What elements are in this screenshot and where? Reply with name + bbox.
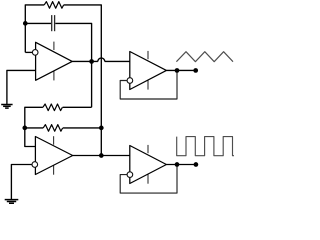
op-amp U4 (buffer) xyxy=(127,145,166,184)
triangle waveform symbol xyxy=(176,52,233,62)
wire capacitor row left xyxy=(25,22,51,24)
node junction dot U4 feedback xyxy=(175,162,180,167)
wire U1 non-inverting input to ground G1 xyxy=(7,70,36,104)
wire U4 feedback loop output to bubble xyxy=(120,165,177,194)
node junction dot U2 output xyxy=(99,153,104,158)
square waveform symbol xyxy=(177,137,234,156)
resistor R2 xyxy=(43,104,62,111)
wire U1 output continuing to U3 input xyxy=(105,60,130,62)
ground G1 xyxy=(1,105,12,109)
resistor R3 xyxy=(43,125,62,132)
wire U3 feedback loop output to bubble xyxy=(120,70,177,99)
wire row A left lead down to node B and U2 upper input xyxy=(25,107,43,146)
wire capacitor right lead down to U1 output node and row A corner xyxy=(55,23,91,107)
node junction dot U3 feedback xyxy=(175,68,180,73)
op-amp U3 (buffer) xyxy=(127,51,166,90)
wire row B right lead xyxy=(63,127,101,129)
wire U2 output to U4 input xyxy=(73,155,130,157)
wire U3 output xyxy=(166,69,196,71)
wire U2 bubble input to ground G2 xyxy=(11,165,32,200)
node junction dot rowB/R1 vertical xyxy=(99,126,104,131)
wire row A to U2 non-inverting branch left side xyxy=(63,106,92,108)
wire row B left lead xyxy=(25,127,43,129)
wire U4 output xyxy=(166,164,196,166)
wire top rail from left rail to R1 xyxy=(25,5,44,53)
node terminal dot triangle output xyxy=(193,68,198,73)
wire left rail to U1 inverting bubble xyxy=(25,51,32,53)
node junction dot rowA/rowB left xyxy=(22,126,27,131)
ground G2 xyxy=(5,200,19,204)
node terminal dot square output xyxy=(194,162,199,167)
capacitor C1 xyxy=(52,15,55,31)
wire R1 right lead down the x=101.3 vertical to U2 output xyxy=(64,5,102,156)
op-amp U1 xyxy=(32,42,72,81)
wire U1 output to hysteresis node xyxy=(72,60,98,62)
wire crossover hop over x=101.3 xyxy=(98,58,105,61)
resistor R1 xyxy=(44,2,63,9)
node junction dot U1 output xyxy=(89,59,94,64)
op-amp U2 xyxy=(32,136,73,175)
node junction dot C1/left rail xyxy=(23,21,28,26)
